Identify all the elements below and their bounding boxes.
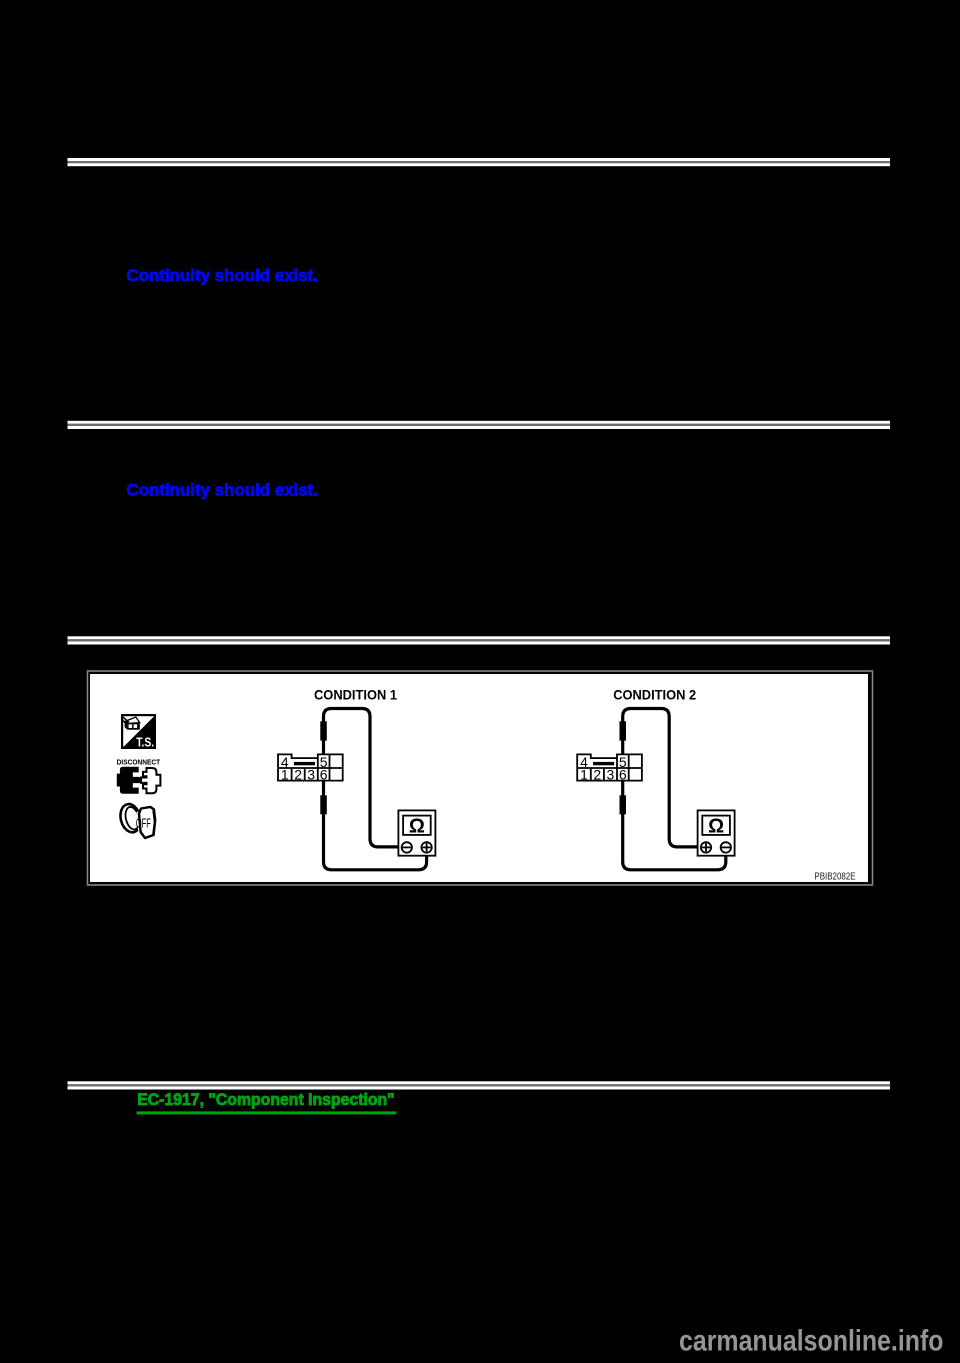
svg-text:DISCONNECT: DISCONNECT — [117, 758, 161, 767]
separator rule 1 — [68, 158, 891, 166]
figure box background — [90, 674, 868, 882]
terminal tick upper (condition 2) — [620, 721, 627, 740]
terminal tick lower (condition 2) — [620, 795, 627, 814]
separator rule 2 — [68, 421, 891, 429]
ohmmeter U1 (condition 1) — [398, 810, 435, 855]
terminal tick lower (condition 1) — [320, 795, 327, 814]
svg-text:6: 6 — [619, 767, 627, 783]
separator rule 4 — [68, 1081, 891, 1089]
wire: connector pin 6 to ohmmeter positive terminal (condition 1) — [324, 781, 427, 870]
figure box frame — [88, 671, 873, 885]
ohmmeter positive terminal (condition 1) — [421, 842, 431, 852]
svg-text:3: 3 — [607, 767, 615, 783]
svg-text:3: 3 — [307, 767, 315, 783]
ohmmeter U2 (condition 2) — [698, 810, 735, 855]
connector grid (condition 1) — [278, 754, 343, 780]
connector keyway bar (condition 1) — [294, 762, 315, 765]
separator rule 3 — [68, 636, 891, 644]
svg-text:2: 2 — [593, 767, 601, 783]
ohmmeter negative terminal (condition 1) — [402, 842, 412, 852]
svg-text:OFF: OFF — [136, 816, 151, 831]
connector keyway bar (condition 2) — [593, 762, 614, 765]
svg-text:PBIB2082E: PBIB2082E — [814, 871, 855, 882]
link EC-1917 "Component Inspection" — [137, 1091, 397, 1115]
svg-text:Continuity should exist.: Continuity should exist. — [127, 480, 319, 499]
wire: connector pin 5 to ohmmeter negative terminal (condition 1) — [324, 709, 402, 847]
svg-text:Ω: Ω — [708, 816, 724, 838]
wire: connector pin 5 to ohmmeter positive terminal (condition 2) — [623, 709, 701, 847]
svg-text:EC-1917, "Component Inspection: EC-1917, "Component Inspection" — [137, 1091, 395, 1109]
svg-text:Ω: Ω — [409, 816, 425, 838]
connector grid (condition 2) — [577, 754, 642, 780]
ohmmeter negative terminal (condition 2) — [721, 842, 731, 852]
svg-text:CONDITION 2: CONDITION 2 — [613, 687, 696, 703]
ohmmeter positive terminal (condition 2) — [701, 842, 711, 852]
svg-text:2: 2 — [294, 767, 302, 783]
svg-text:1: 1 — [281, 767, 289, 783]
svg-text:6: 6 — [320, 767, 328, 783]
svg-text:carmanualsonline.info: carmanualsonline.info — [679, 1324, 944, 1357]
DISCONNECT icon — [117, 758, 161, 794]
svg-text:T.S.: T.S. — [136, 735, 154, 750]
svg-text:Continuity should exist.: Continuity should exist. — [127, 266, 319, 285]
svg-text:CONDITION 1: CONDITION 1 — [314, 687, 397, 703]
T.S. tool icon — [122, 715, 155, 750]
svg-text:1: 1 — [580, 767, 588, 783]
wire: connector pin 6 to ohmmeter negative terminal (condition 2) — [623, 781, 726, 870]
terminal tick upper (condition 1) — [320, 721, 327, 740]
ignition key OFF icon — [118, 802, 156, 838]
